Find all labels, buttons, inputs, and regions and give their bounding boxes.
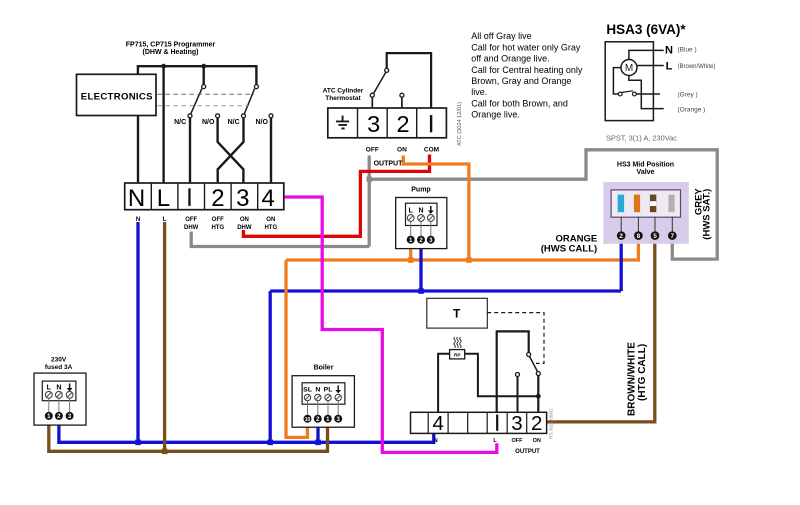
svg-text:(DHW & Heating): (DHW & Heating) [143,49,199,56]
svg-text:off and Orange live.: off and Orange live. [471,54,549,64]
svg-text:2: 2 [211,185,224,212]
svg-text:230V: 230V [51,357,67,364]
svg-text:Call for Central heating only: Call for Central heating only [471,65,583,75]
svg-text:HTG: HTG [211,225,224,231]
svg-text:ELECTRONICS: ELECTRONICS [81,92,153,103]
svg-text:ATC (3024 12/01): ATC (3024 12/01) [457,102,463,146]
svg-text:8: 8 [637,233,641,240]
svg-text:M: M [625,63,633,74]
svg-text:(Orange ): (Orange ) [678,107,706,114]
svg-text:Valve: Valve [637,169,655,176]
svg-text:Orange live.: Orange live. [471,110,520,120]
svg-text:OFF: OFF [366,147,379,154]
svg-text:Call for both Brown, and: Call for both Brown, and [471,98,568,108]
svg-text:3: 3 [367,111,380,137]
svg-text:HTG: HTG [264,225,277,231]
svg-text:HSA3 (6VA)*: HSA3 (6VA)* [606,22,686,37]
svg-text:N: N [434,438,438,444]
svg-text:N: N [136,217,140,223]
svg-text:ON: ON [266,217,275,223]
svg-text:2: 2 [397,111,410,137]
svg-text:T: T [453,307,461,321]
svg-text:N/C: N/C [228,119,240,126]
svg-text:L: L [157,185,170,212]
svg-text:N: N [665,45,673,57]
svg-text:L: L [493,438,497,444]
svg-text:OUTPUT: OUTPUT [515,449,540,455]
svg-text:Thermostat: Thermostat [325,95,361,102]
svg-text:OUTPUT: OUTPUT [374,161,404,168]
svg-text:All off Gray live: All off Gray live [471,31,531,41]
svg-text:Brown, Gray and Orange: Brown, Gray and Orange [471,76,571,86]
svg-text:OFF: OFF [185,217,197,223]
svg-text:Call for hot water only Gray: Call for hot water only Gray [471,42,581,52]
svg-text:N: N [56,385,61,392]
svg-text:SL: SL [303,387,312,394]
svg-text:COM: COM [424,147,439,154]
svg-text:N: N [315,387,320,394]
svg-text:N: N [128,185,145,212]
svg-text:4: 4 [262,185,275,212]
svg-text:SPST, 3(1) A, 230Vac: SPST, 3(1) A, 230Vac [606,134,677,143]
svg-text:10: 10 [305,417,311,423]
svg-text:DHW: DHW [237,225,252,231]
svg-text:live.: live. [471,87,487,97]
svg-text:(Grey ): (Grey ) [678,92,698,99]
svg-text:L: L [409,208,414,215]
svg-text:Boiler: Boiler [314,365,334,372]
svg-text:OFF: OFF [512,438,524,444]
svg-text:4: 4 [432,412,443,435]
svg-text:fused 3A: fused 3A [45,364,73,371]
svg-text:RS 3021 05/02: RS 3021 05/02 [549,408,554,439]
svg-text:(Blue ): (Blue ) [678,47,697,54]
svg-text:5: 5 [653,233,657,240]
svg-text:(HTG CALL): (HTG CALL) [637,344,648,401]
svg-text:L: L [47,385,52,392]
svg-text:(Brown/White): (Brown/White) [678,64,716,70]
svg-text:HS3 Mid Position: HS3 Mid Position [617,162,674,169]
svg-text:PL: PL [324,387,333,394]
svg-text:RP: RP [454,353,460,358]
svg-text:Pump: Pump [411,187,430,194]
svg-text:DHW: DHW [184,225,199,231]
svg-text:(HWS SAT.): (HWS SAT.) [701,189,712,240]
svg-text:ATC Cylinder: ATC Cylinder [323,88,364,95]
svg-text:ON: ON [240,217,249,223]
svg-text:N/C: N/C [174,119,186,126]
svg-text:2: 2 [619,233,623,240]
svg-text:FP715, CP715 Programmer: FP715, CP715 Programmer [126,42,216,49]
svg-text:L: L [163,217,167,223]
svg-text:7: 7 [671,233,675,240]
svg-text:ON: ON [397,147,407,154]
svg-text:ON: ON [533,438,541,444]
svg-text:OFF: OFF [212,217,224,223]
svg-text:3: 3 [236,185,249,212]
svg-text:N: N [418,208,423,215]
svg-text:(HWS CALL): (HWS CALL) [541,244,597,255]
svg-text:L: L [666,61,673,73]
svg-text:3: 3 [511,412,522,435]
svg-text:N/O: N/O [202,119,215,126]
svg-text:N/O: N/O [255,119,268,126]
svg-text:2: 2 [531,412,542,435]
